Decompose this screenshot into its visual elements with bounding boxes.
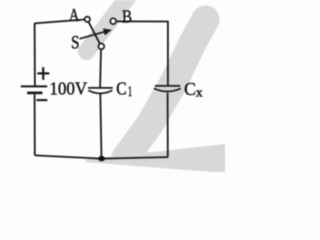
svg-text:A: A xyxy=(69,5,79,25)
svg-text:C: C xyxy=(184,79,196,99)
svg-text:S: S xyxy=(71,32,80,53)
svg-text:100V: 100V xyxy=(49,79,87,99)
svg-text:x: x xyxy=(196,84,203,99)
svg-text:1: 1 xyxy=(128,84,133,100)
svg-text:B: B xyxy=(122,6,132,26)
svg-text:C: C xyxy=(116,79,126,99)
